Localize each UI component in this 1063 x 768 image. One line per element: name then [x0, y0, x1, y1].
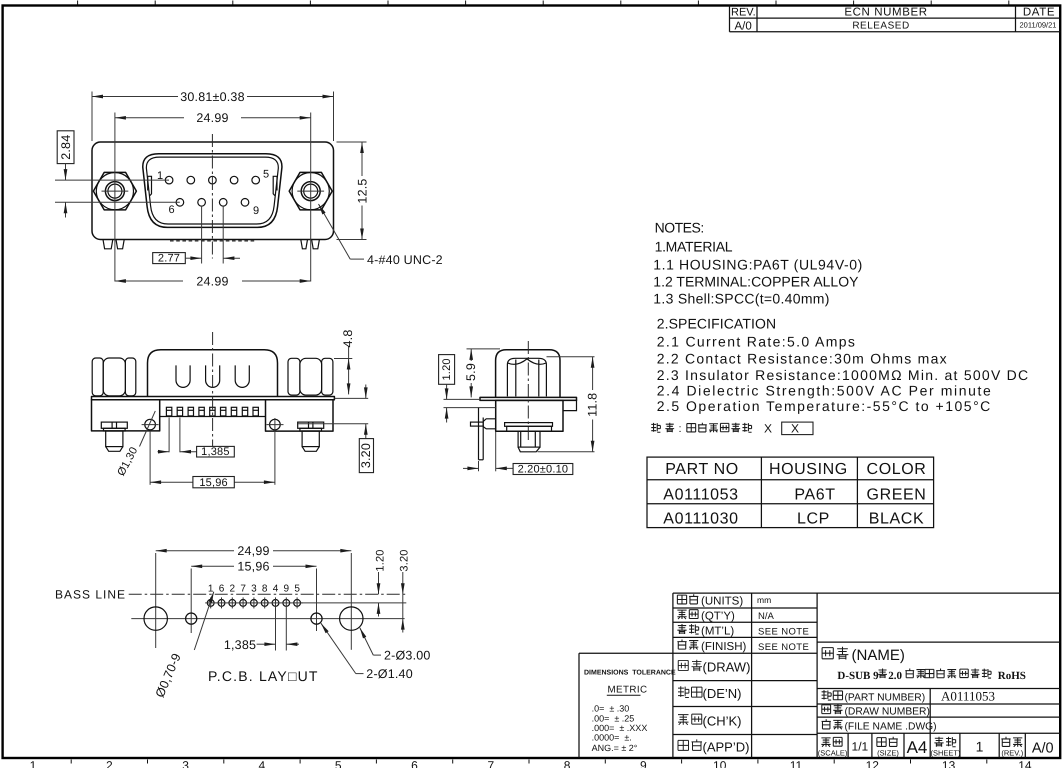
dim 2.20±0.10 boxed — [478, 461, 480, 471]
svg-text:(UNITS): (UNITS) — [701, 596, 743, 608]
part number row 料號(PART NUMBER) A0111053 — [822, 690, 832, 700]
svg-text:2.84: 2.84 — [59, 135, 73, 160]
svg-text:RELEASED: RELEASED — [852, 21, 909, 32]
draw row 繪圖(DRAW) — [678, 660, 688, 670]
U slot 3 — [235, 365, 249, 387]
svg-text:8: 8 — [262, 584, 268, 595]
svg-text:(SIZE): (SIZE) — [877, 749, 899, 758]
svg-text:15,96: 15,96 — [199, 477, 228, 489]
insulator recess bottom — [160, 416, 266, 418]
svg-text:ANG.= ± 2°: ANG.= ± 2° — [592, 743, 638, 753]
file name row 圖檔(FILE NAME .DWG) — [822, 719, 831, 729]
scale cell 比例(SCALE) 1/1 — [821, 738, 830, 747]
check row 審校(CH'K) — [678, 715, 689, 725]
product name line — [837, 670, 1026, 682]
svg-text:1/1: 1/1 — [852, 740, 869, 754]
svg-text:.0000= ±.: .0000= ±. — [592, 733, 632, 743]
dim 11.8 — [547, 356, 595, 358]
svg-text:.0= ± .30: .0= ± .30 — [592, 703, 630, 713]
svg-text:5.9: 5.9 — [464, 363, 478, 381]
dim 2.77 boxed — [201, 206, 203, 264]
svg-text:DATE: DATE — [1023, 7, 1055, 19]
svg-text:REV.: REV. — [731, 7, 756, 19]
svg-text:9: 9 — [253, 205, 259, 217]
vertical centerline — [211, 134, 213, 259]
svg-text:1: 1 — [976, 739, 984, 755]
top edge ruler ticks — [78, 1, 1009, 5]
dim 1.20 boxed (side) — [439, 355, 455, 385]
front hidden edge dashed — [170, 240, 256, 242]
remark line 備注 — [651, 423, 660, 432]
svg-text:2.4 Dielectric Strength:500V A: 2.4 Dielectric Strength:500V AC Per minu… — [657, 383, 993, 399]
svg-text:DIMENSIONS TOLERANCE: DIMENSIONS TOLERANCE — [584, 670, 676, 677]
svg-text:3.20: 3.20 — [399, 549, 411, 571]
side screw head — [505, 423, 553, 427]
svg-text:12.5: 12.5 — [355, 178, 369, 203]
svg-text:(DRAW NUMBER): (DRAW NUMBER) — [845, 707, 930, 718]
svg-text:7: 7 — [487, 759, 494, 768]
svg-text:PART NO: PART NO — [665, 461, 739, 478]
D-shroud outer — [143, 154, 282, 228]
svg-text:10: 10 — [713, 759, 727, 768]
svg-text:A/0: A/0 — [735, 21, 752, 33]
svg-text:4.8: 4.8 — [341, 330, 355, 348]
dim 1,385 (top view) — [168, 418, 170, 453]
svg-text:(CH’K): (CH’K) — [703, 713, 742, 728]
left rivet circle — [145, 419, 156, 430]
U slot 1 — [176, 365, 190, 387]
dim 4.8 — [334, 358, 352, 360]
svg-text:A0111053: A0111053 — [941, 689, 995, 704]
notes text — [653, 220, 1029, 414]
svg-text:HOUSING: HOUSING — [769, 461, 848, 478]
svg-text:(FINISH): (FINISH) — [701, 641, 747, 653]
svg-text:1.20: 1.20 — [374, 549, 386, 571]
svg-text:N/A: N/A — [758, 611, 775, 622]
material row 材料(MT'L) SEE NOTE — [677, 624, 686, 634]
svg-text:.00= ± .25: .00= ± .25 — [592, 714, 635, 724]
svg-text:2.3 Insulator Resistance:1000M: 2.3 Insulator Resistance:1000MΩ Min. at … — [657, 367, 1030, 383]
sheet cell 頁次(SHEET) 1 — [934, 737, 943, 747]
svg-text:14: 14 — [1018, 759, 1032, 768]
svg-text:6: 6 — [168, 204, 174, 216]
dim 15,96 (top view) — [149, 431, 151, 485]
svg-text:2.20±0.10: 2.20±0.10 — [518, 464, 569, 476]
left screw (top view) — [101, 422, 127, 451]
callout 2-Ø1.40 — [321, 623, 356, 673]
dim 15,96 (pcb) — [191, 565, 234, 567]
svg-text:NOTES:: NOTES: — [655, 220, 704, 236]
svg-text:A4: A4 — [907, 738, 928, 757]
dim 24,99 (pcb) — [156, 550, 234, 552]
svg-text:2.SPECIFICATION: 2.SPECIFICATION — [657, 315, 776, 331]
side nut — [507, 358, 546, 396]
ECN revision table — [730, 6, 1061, 32]
svg-text:A0111030: A0111030 — [663, 510, 738, 527]
top view centerline — [212, 332, 214, 446]
svg-text:9: 9 — [640, 759, 647, 768]
dim 2.84 boxed — [57, 131, 74, 164]
mating pin stub — [471, 422, 484, 426]
side screw shaft — [518, 431, 540, 447]
side shell dome — [496, 350, 560, 398]
svg-text:2-Ø1.40: 2-Ø1.40 — [366, 667, 413, 681]
callout Ø1,30 — [140, 411, 156, 447]
svg-text:2: 2 — [106, 759, 113, 768]
svg-text:5: 5 — [263, 169, 269, 181]
svg-text:7: 7 — [240, 584, 246, 595]
svg-text:11: 11 — [790, 759, 803, 768]
big mounting hole left 2-Ø3.00 — [144, 607, 167, 630]
svg-text:.000= ± .XXX: .000= ± .XXX — [592, 723, 648, 733]
side flange — [480, 397, 577, 400]
svg-text:(NAME): (NAME) — [852, 647, 905, 664]
svg-text:BASS LINE: BASS LINE — [55, 588, 126, 602]
pin sequence numbers — [208, 584, 300, 595]
svg-text:9: 9 — [284, 584, 290, 595]
svg-text:X: X — [764, 421, 772, 435]
top view flange — [92, 397, 335, 400]
svg-text:COLOR: COLOR — [867, 461, 927, 478]
svg-text:PA6T: PA6T — [794, 486, 835, 503]
svg-text:1: 1 — [30, 759, 37, 768]
svg-text:mm: mm — [757, 595, 771, 605]
svg-text:4-#40 UNC-2: 4-#40 UNC-2 — [367, 253, 443, 267]
PCB pin (bent down) — [478, 408, 480, 460]
pin holes bottom row 6-9 — [176, 199, 184, 207]
svg-text:30.81±0.38: 30.81±0.38 — [180, 90, 244, 104]
D-shroud inner — [146, 157, 278, 224]
svg-text:1.1 HOUSING:PA6T (UL94V-0): 1.1 HOUSING:PA6T (UL94V-0) — [653, 257, 863, 273]
shell dome (top view) — [148, 350, 278, 397]
small rivet hole right — [311, 613, 322, 624]
extension line through left hex — [114, 113, 116, 282]
svg-text:2.0: 2.0 — [888, 670, 902, 682]
svg-text:1.2 TERMINAL:COPPER ALLOY: 1.2 TERMINAL:COPPER ALLOY — [653, 273, 859, 289]
dim 30.81±0.38 — [91, 92, 93, 142]
pin holes top row 1-5 — [165, 176, 173, 184]
svg-text:2.1 Current Rate:5.0 Amps: 2.1 Current Rate:5.0 Amps — [657, 334, 857, 350]
svg-text:2.5 Operation Temperature:-55°: 2.5 Operation Temperature:-55°C to +105°… — [657, 398, 992, 414]
svg-text:1.20: 1.20 — [441, 358, 453, 380]
side right step — [563, 400, 577, 410]
svg-text:RoHS: RoHS — [998, 670, 1026, 682]
pin shoulder — [483, 419, 496, 429]
U slot 2 — [206, 365, 220, 387]
svg-text:24.99: 24.99 — [196, 275, 228, 289]
shroud left groove — [148, 176, 152, 195]
svg-text:12: 12 — [866, 759, 880, 768]
svg-text:GREEN: GREEN — [867, 486, 927, 503]
title block grid — [579, 593, 1060, 758]
callout 4-#40 UNC-2 — [319, 204, 351, 259]
svg-text:6: 6 — [411, 759, 418, 768]
svg-text:(QT’Y): (QT’Y) — [701, 610, 735, 622]
right rivet circle — [270, 419, 281, 430]
dim 1,385 (pcb) — [275, 611, 277, 651]
callout 2-Ø3.00 — [360, 628, 374, 655]
right body block — [266, 400, 334, 431]
mounting holes centerline — [131, 618, 404, 620]
right jackscrew hex — [289, 172, 332, 210]
svg-text:(APP’D): (APP’D) — [703, 739, 750, 754]
rev cell 版次(REV.) A/0 — [1001, 737, 1010, 747]
right screw (top view) — [298, 422, 324, 451]
pin row extension line right — [301, 602, 406, 604]
dim 12.5 — [337, 141, 367, 143]
svg-text:(FILE NAME .DWG): (FILE NAME .DWG) — [845, 722, 937, 733]
svg-text:1,385: 1,385 — [224, 638, 256, 652]
svg-text:1.MATERIAL: 1.MATERIAL — [655, 238, 733, 254]
bottom ruler numbers and ticks — [30, 759, 1032, 768]
svg-text:3.20: 3.20 — [359, 443, 373, 468]
left jackscrew hex — [93, 172, 136, 210]
svg-text:15,96: 15,96 — [237, 560, 269, 574]
svg-text:5: 5 — [335, 759, 342, 768]
finish row 處理(FINISH) SEE NOTE — [677, 639, 686, 649]
svg-text:8: 8 — [564, 759, 571, 768]
bass centerline dash-dot — [129, 593, 407, 595]
dim 3.20 boxed — [334, 397, 368, 399]
svg-text:SEE NOTE: SEE NOTE — [758, 626, 809, 637]
svg-text:P.C.B. LAY□UT: P.C.B. LAY□UT — [208, 668, 319, 684]
svg-text:D-SUB 9: D-SUB 9 — [837, 670, 879, 682]
small rivet hole left 2-Ø1.40 — [186, 613, 197, 624]
front view body — [92, 142, 334, 240]
svg-text:2-Ø3.00: 2-Ø3.00 — [384, 649, 431, 663]
svg-text:1,385: 1,385 — [201, 446, 230, 458]
front view mounting feet — [103, 240, 113, 249]
svg-text:6: 6 — [219, 584, 225, 595]
svg-text:13: 13 — [942, 759, 956, 768]
svg-text:24.99: 24.99 — [196, 111, 228, 125]
units row 單位(UNITS) mm — [677, 595, 686, 604]
hole vertical centerlines — [155, 553, 157, 648]
dim 24.99 bottom — [115, 280, 183, 282]
svg-text:3: 3 — [251, 584, 257, 595]
side centerline — [527, 341, 529, 440]
svg-text:2.2 Contact Resistance:30m Ohm: 2.2 Contact Resistance:30m Ohms max — [657, 350, 948, 366]
svg-text:(SHEET): (SHEET) — [931, 749, 962, 758]
svg-text:24,99: 24,99 — [237, 544, 269, 558]
9 pin pads with crosses — [207, 600, 300, 607]
svg-text:3: 3 — [182, 759, 189, 768]
dim 24.99 top — [115, 117, 184, 119]
9 terminal pins (top view) — [166, 407, 258, 416]
name cell 圖名(NAME) — [822, 648, 833, 659]
insulator lower edge line — [444, 407, 496, 409]
dim 3.20 (pcb) — [402, 572, 404, 594]
left body block — [92, 400, 160, 431]
approve row 核准(APP'D) — [678, 740, 689, 750]
svg-text:A0111053: A0111053 — [663, 486, 738, 503]
svg-text:A/0: A/0 — [1032, 740, 1054, 756]
svg-text:ECN NUMBER: ECN NUMBER — [844, 7, 927, 19]
svg-text:(MT’L): (MT’L) — [701, 625, 734, 637]
svg-text:X: X — [791, 421, 799, 435]
design row 設計(DE'N) — [678, 686, 689, 697]
svg-text:5: 5 — [294, 584, 300, 595]
dim 1.20 (pcb) — [378, 572, 380, 594]
svg-text:11.8: 11.8 — [586, 393, 600, 417]
svg-text:SEE NOTE: SEE NOTE — [758, 642, 809, 653]
svg-text:(REV.): (REV.) — [1001, 749, 1023, 758]
extension line through right hex — [310, 113, 312, 282]
svg-text:LCP: LCP — [797, 510, 830, 527]
svg-text:(DRAW): (DRAW) — [703, 660, 751, 675]
qty row 數量(QT'Y) N/A — [677, 610, 686, 619]
svg-text:METRIC: METRIC — [608, 685, 648, 696]
callout Ø0,70-9 — [194, 592, 214, 650]
svg-text:(SCALE): (SCALE) — [818, 749, 848, 758]
svg-text::: : — [679, 423, 682, 435]
shroud right groove — [273, 176, 277, 195]
svg-text:2: 2 — [230, 584, 236, 595]
svg-text:(PART NUMBER): (PART NUMBER) — [845, 692, 926, 703]
left nut side facets — [92, 358, 136, 396]
right nut side facets — [288, 358, 333, 395]
svg-text:2011/09/21: 2011/09/21 — [1020, 21, 1057, 30]
svg-text:1.3 Shell:SPCC(t=0.40mm): 1.3 Shell:SPCC(t=0.40mm) — [653, 290, 829, 306]
big mounting hole right — [340, 607, 363, 630]
draw number row 圖號(DRAW NUMBER) — [822, 705, 831, 714]
svg-text:BLACK: BLACK — [869, 510, 924, 527]
svg-text:(DE’N): (DE’N) — [703, 686, 742, 701]
side body — [496, 400, 563, 431]
svg-text:4: 4 — [259, 759, 266, 768]
svg-text:4: 4 — [273, 584, 279, 595]
dim 5.9 — [467, 348, 501, 350]
size cell 圖紙(SIZE) A4 — [877, 738, 886, 747]
svg-text:2.77: 2.77 — [158, 253, 180, 265]
